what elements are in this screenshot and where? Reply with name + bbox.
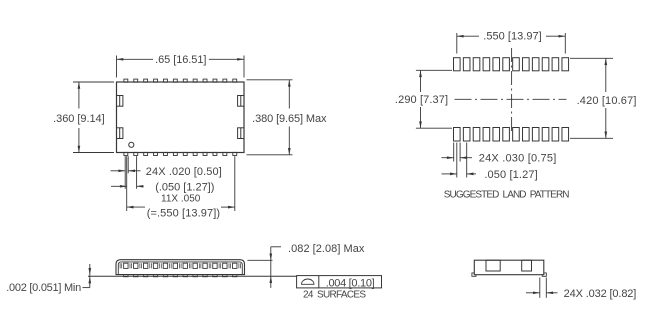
- right lead foot (end view): [542, 273, 546, 276]
- right terminal window (end view): [522, 260, 532, 271]
- row of 12 lead profiles inside side view: [124, 263, 237, 268]
- dimension 24X .020 [0.50] pad width: [111, 166, 222, 178]
- dimension .002 [0.051] Min standoff: [6, 264, 91, 294]
- svg-text:24X .030 [0.75]: 24X .030 [0.75]: [479, 153, 557, 165]
- dimension 24X .030 [0.75] land width: [442, 153, 557, 165]
- right side castellation pads (top view): [238, 96, 244, 139]
- svg-text:.004 [0.10]: .004 [0.10]: [326, 278, 375, 290]
- dimension .380 [9.65] Max overall height: [247, 80, 327, 155]
- svg-text:.65 [16.51]: .65 [16.51]: [155, 54, 206, 66]
- land pattern bottom row of 12 pads: [454, 128, 569, 142]
- flatness symbol: [302, 279, 315, 284]
- dimension 11X .050 (=.550 [13.97]) pad span: [127, 194, 235, 220]
- vertical centerline (dash-dot): [511, 48, 513, 134]
- svg-text:.050 [1.27]: .050 [1.27]: [484, 169, 537, 181]
- package body outline (side view): [116, 260, 245, 275]
- extension lines below first pad (pad edges and centers): [125, 156, 235, 211]
- svg-text:.380 [9.65] Max: .380 [9.65] Max: [252, 113, 327, 125]
- extension lines below first land pads: [454, 143, 467, 178]
- top row of 12 terminal pads (top view): [124, 79, 237, 82]
- svg-text:(.050 [1.27]): (.050 [1.27]): [155, 181, 214, 193]
- seating plane line: [88, 275, 297, 277]
- horizontal centerline (dash-dot): [455, 98, 567, 100]
- dimension .420 [10.67] outer span: [570, 58, 636, 138]
- pin 1 index circle: [129, 142, 134, 147]
- package body outline (top view): [117, 82, 245, 153]
- lead separator ticks in side view: [120, 263, 240, 268]
- svg-text:.002 [0.051] Min: .002 [0.051] Min: [6, 282, 81, 294]
- svg-text:(=.550 [13.97]): (=.550 [13.97]): [147, 208, 220, 220]
- svg-text:.420 [10.67]: .420 [10.67]: [577, 95, 637, 107]
- dimension 24X .032 [0.82] lead width (end view): [526, 278, 636, 300]
- svg-text:24X .032 [0.82]: 24X .032 [0.82]: [564, 288, 637, 300]
- left lead foot (end view): [472, 273, 476, 276]
- dimension .290 [7.37] inner gap: [395, 70, 452, 128]
- dimension .082 [2.08] Max body height (side view): [247, 243, 364, 288]
- svg-text:.550 [13.97]: .550 [13.97]: [483, 31, 541, 43]
- svg-text:SUGGESTED LAND PATTERN: SUGGESTED LAND PATTERN: [444, 190, 569, 201]
- 12 lead feet under side view body: [124, 275, 237, 277]
- svg-text:24X .020 [0.50]: 24X .020 [0.50]: [146, 166, 222, 178]
- dimension .050 [1.27] land pitch: [442, 169, 538, 181]
- left side castellation pads (top view): [117, 96, 123, 139]
- flatness feature control frame .004 [0.10]: [297, 276, 382, 290]
- dimension .360 [9.14] body height: [53, 82, 114, 153]
- dimension .65 [16.51] overall width: [117, 54, 245, 77]
- dimension .550 [13.97] land pattern span: [457, 31, 566, 54]
- left terminal window (end view): [486, 260, 500, 271]
- package body inner line (side view): [118, 262, 242, 275]
- package body outline (end view): [474, 260, 544, 275]
- svg-text:11X .050: 11X .050: [161, 194, 201, 205]
- svg-text:.360 [9.14]: .360 [9.14]: [53, 113, 105, 125]
- land pattern top row of 12 pads: [454, 58, 569, 71]
- svg-text:.290 [7.37]: .290 [7.37]: [395, 94, 448, 106]
- svg-text:.082 [2.08] Max: .082 [2.08] Max: [288, 243, 365, 255]
- svg-text:24 SURFACES: 24 SURFACES: [303, 289, 366, 300]
- bottom row of 12 terminal pads (top view): [124, 152, 237, 155]
- dimension (.050 [1.27]) pad pitch: [111, 181, 214, 193]
